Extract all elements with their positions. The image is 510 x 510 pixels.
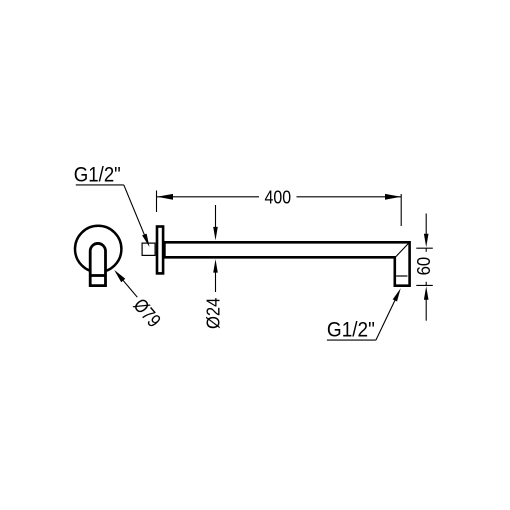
arrowhead of bottom G1/2 leader	[393, 288, 401, 301]
underline of bottom G1/2 label	[327, 339, 376, 341]
dia 24 lower arrowhead	[213, 259, 218, 273]
60 dim top stub	[425, 248, 427, 252]
60 dim top tick	[416, 247, 433, 249]
arrowhead of top G1/2 leader	[142, 234, 149, 247]
dimension line 400 (right segment)	[297, 196, 402, 198]
connector divider line (front view)	[90, 274, 105, 277]
extension line right of 400 dim	[400, 194, 402, 226]
bend diagonal line	[396, 243, 409, 256]
underline of top G1/2 label	[76, 184, 124, 186]
wall flange (side view)	[157, 227, 163, 274]
svg-text:G1/2": G1/2"	[327, 318, 375, 342]
60 dim upper arrowhead	[424, 234, 429, 248]
60 dim bottom tick	[416, 284, 433, 286]
dia 24 upper arrow line	[215, 205, 217, 230]
60 dim bottom arrowhead	[424, 286, 429, 300]
svg-text:G1/2": G1/2"	[74, 163, 121, 187]
leader line for dia 79	[116, 272, 137, 297]
leader line of bottom G1/2 label	[376, 298, 396, 340]
60 dim upper arrow line	[425, 214, 427, 237]
arrowhead 400 left	[157, 194, 173, 200]
extension line left of 400 dim	[156, 191, 158, 213]
wall flange circle (front view)	[75, 226, 121, 272]
dia 24 upper arrowhead	[213, 227, 218, 241]
shower arm front view (keyhole / pill shape)	[90, 243, 105, 285]
dia 24 lower arrow line	[215, 270, 217, 292]
leader line of top G1/2 label	[124, 185, 146, 238]
dimension line 400 (left segment)	[157, 196, 259, 198]
connector divider line (side view)	[396, 275, 407, 277]
thread square behind flange	[142, 243, 155, 255]
svg-text:60: 60	[413, 257, 434, 276]
60 dim bottom arrow line	[425, 297, 427, 321]
arrowhead of dia 79 leader	[114, 270, 125, 282]
svg-text:Ø24: Ø24	[203, 298, 224, 330]
60 dim bottom stub	[425, 282, 427, 286]
shower arm tube with bend (side view)	[164, 242, 409, 285]
arrowhead 400 right	[385, 194, 401, 200]
svg-text:400: 400	[265, 186, 292, 207]
